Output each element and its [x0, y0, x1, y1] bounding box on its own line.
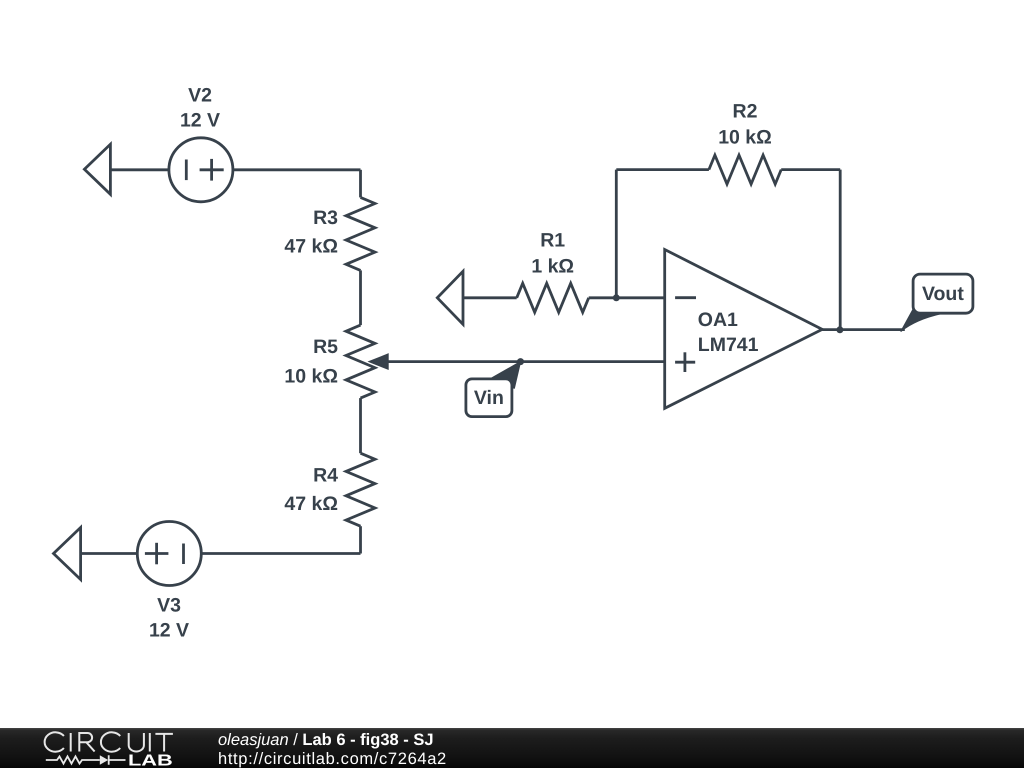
svg-text:1 kΩ: 1 kΩ [531, 255, 574, 277]
svg-text:oleasjuan / Lab 6 - fig38 - SJ: oleasjuan / Lab 6 - fig38 - SJ [218, 731, 434, 749]
svg-text:LAB: LAB [128, 753, 173, 768]
svg-text:10 kΩ: 10 kΩ [718, 127, 772, 149]
svg-text:R2: R2 [733, 101, 758, 123]
svg-text:R3: R3 [313, 207, 338, 229]
svg-text:V2: V2 [188, 85, 212, 107]
svg-text:47 kΩ: 47 kΩ [284, 493, 338, 515]
svg-text:Vout: Vout [922, 283, 964, 305]
svg-text:V3: V3 [157, 594, 181, 616]
svg-text:12 V: 12 V [149, 619, 189, 641]
svg-text:10 kΩ: 10 kΩ [284, 366, 338, 388]
svg-text:R4: R4 [313, 465, 338, 487]
svg-text:LM741: LM741 [698, 334, 759, 356]
svg-text:http://circuitlab.com/c7264a2: http://circuitlab.com/c7264a2 [218, 750, 447, 768]
svg-text:12 V: 12 V [180, 109, 220, 131]
svg-text:47 kΩ: 47 kΩ [284, 235, 338, 257]
svg-text:OA1: OA1 [698, 309, 738, 331]
svg-text:R1: R1 [540, 229, 565, 251]
svg-text:Vin: Vin [474, 387, 504, 409]
svg-text:R5: R5 [313, 336, 338, 358]
